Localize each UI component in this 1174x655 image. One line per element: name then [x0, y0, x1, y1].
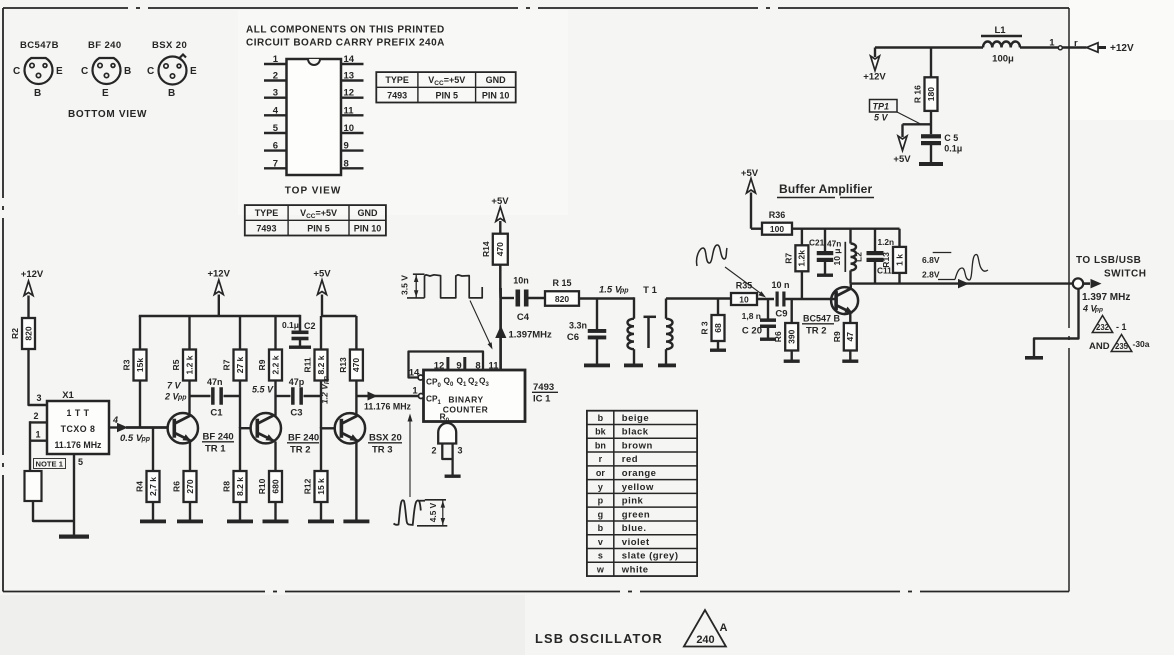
ground TR3 [343, 520, 369, 524]
svg-text:R35: R35 [736, 281, 753, 291]
wire R7 column to TR2 base [239, 380, 241, 428]
svg-text:R6: R6 [172, 481, 182, 492]
arrow from waveform to line [409, 420, 411, 497]
inductor L2 10u [849, 229, 851, 244]
svg-text:L1: L1 [994, 25, 1006, 36]
svg-text:68: 68 [713, 323, 723, 333]
resistor R7 27 k [234, 350, 247, 381]
svg-text:L2: L2 [854, 252, 864, 262]
svg-text:R36: R36 [769, 210, 786, 220]
svg-text:PIN 10: PIN 10 [482, 90, 510, 100]
leader line waveform to wire [470, 301, 492, 348]
resistor R2 820 [22, 318, 35, 349]
ground R0 [445, 475, 461, 478]
svg-text:SWITCH: SWITCH [1104, 269, 1146, 280]
svg-text:E: E [102, 88, 109, 99]
svg-text:PIN 10: PIN 10 [354, 223, 382, 233]
svg-text:R4: R4 [135, 481, 145, 492]
svg-text:1: 1 [1049, 38, 1055, 49]
wire TR1 base node [126, 426, 168, 428]
svg-text:1.2k: 1.2k [797, 250, 807, 267]
svg-text:C21: C21 [809, 238, 825, 248]
wire pins 2-1 to NOTE1 part [29, 421, 31, 471]
resistor R13 470 [350, 350, 363, 381]
svg-text:C: C [13, 66, 20, 77]
svg-text:TP1: TP1 [873, 102, 890, 112]
wire R6 to ground [189, 502, 191, 521]
svg-text:p: p [598, 496, 604, 506]
svg-text:PIN 5: PIN 5 [435, 90, 458, 100]
svg-text:BC547 B: BC547 B [803, 314, 841, 324]
wire L1 to rail [875, 46, 983, 49]
triangle ref 232 [1092, 316, 1112, 333]
resistor R9 47 [844, 323, 857, 351]
svg-text:11: 11 [488, 361, 499, 372]
resistor R35 10 [731, 293, 757, 305]
DIP pin 2 [264, 79, 287, 81]
transistor TR3 BSX20 [335, 413, 365, 443]
svg-text:slate (grey): slate (grey) [622, 551, 679, 562]
svg-text:R 16: R 16 [913, 85, 923, 103]
svg-text:pink: pink [622, 496, 644, 507]
svg-text:6: 6 [273, 141, 278, 152]
leader line sine to node [725, 267, 763, 295]
svg-text:GND: GND [357, 208, 378, 218]
svg-text:g: g [598, 509, 604, 519]
svg-text:11.176 MHz: 11.176 MHz [364, 402, 412, 412]
ground X1 [59, 535, 89, 539]
capacitor C21 47n [824, 229, 826, 252]
resistor R5 1.2 k [183, 350, 196, 381]
svg-text:47n: 47n [827, 239, 841, 249]
ground terminal [1025, 356, 1043, 360]
svg-text:R8: R8 [222, 481, 232, 492]
svg-text:COUNTER: COUNTER [443, 405, 489, 415]
svg-text:13: 13 [344, 71, 355, 82]
terminal to LSB/USB switch [1073, 278, 1083, 288]
svg-text:BF 240: BF 240 [88, 40, 122, 51]
svg-text:R6: R6 [773, 331, 783, 342]
svg-text:r: r [1074, 38, 1078, 49]
svg-text:9: 9 [456, 361, 461, 372]
svg-text:R3: R3 [122, 359, 132, 370]
svg-text:TYPE: TYPE [255, 208, 279, 218]
X1 pin 5 wire [73, 454, 75, 535]
svg-text:47p: 47p [289, 377, 305, 387]
wire rail to R13 [355, 316, 357, 350]
resistor R6 270 [184, 471, 197, 502]
svg-text:5: 5 [273, 123, 279, 134]
oscillator X1 TCXO [47, 401, 109, 454]
svg-text:TR 2: TR 2 [290, 445, 311, 456]
svg-text:R12: R12 [303, 478, 313, 494]
DIP pin 4 [264, 114, 287, 116]
arrow +12V input [1087, 43, 1099, 52]
svg-text:3: 3 [458, 446, 463, 456]
svg-text:7493: 7493 [256, 223, 276, 233]
resistor R13 1k (buffer) [898, 229, 900, 247]
resistor R10 680 [269, 471, 282, 502]
svg-text:or: or [596, 468, 605, 478]
svg-text:BSX 20: BSX 20 [152, 40, 187, 51]
resistor R3 15k [134, 350, 147, 381]
wire R8 from base node [239, 427, 241, 471]
svg-text:3: 3 [273, 88, 278, 99]
wire TR3 collector to counter CP1 [356, 395, 419, 398]
wire rail to R11 [320, 316, 322, 350]
transistor TR1 BF240 [168, 413, 198, 443]
svg-text:pp: pp [177, 395, 187, 402]
svg-text:680: 680 [270, 479, 280, 493]
svg-text:+12V: +12V [207, 269, 230, 280]
DIP pin 5 [264, 132, 287, 134]
wire T1 secondary to R35 [666, 297, 731, 299]
resistor R15 820 [545, 291, 579, 306]
svg-text:11.176 MHz: 11.176 MHz [55, 440, 103, 450]
colour code table [587, 411, 697, 576]
svg-text:10: 10 [344, 123, 355, 134]
svg-text:b: b [598, 413, 604, 423]
svg-text:AND: AND [1089, 341, 1110, 352]
svg-text:2: 2 [273, 71, 278, 82]
wire rail to R3 [139, 316, 141, 350]
wire NOTE1 to ground [33, 501, 74, 521]
svg-text:C 5: C 5 [944, 133, 958, 143]
wire TR2b emitter to R9 [849, 313, 851, 324]
IC1 pin 9 stub [463, 357, 466, 370]
capacitor C3 47p [276, 395, 291, 397]
svg-text:C4: C4 [517, 312, 530, 323]
svg-text:brown: brown [622, 440, 653, 451]
ground R3 [710, 349, 726, 352]
ground R6 [784, 360, 800, 363]
transistor TR2 BC547B buffer [831, 287, 858, 314]
svg-text:2.2 k: 2.2 k [270, 355, 280, 374]
svg-text:+5V: +5V [893, 154, 911, 165]
capacitor C9 10n [776, 292, 779, 307]
table 7493 supply pins (lower) [245, 205, 386, 235]
svg-text:R13: R13 [881, 252, 891, 268]
svg-text:1.397 MHz: 1.397 MHz [1082, 292, 1130, 303]
svg-text:100: 100 [770, 224, 784, 234]
svg-text:C9: C9 [775, 309, 787, 320]
svg-text:3.5 V: 3.5 V [400, 275, 410, 295]
svg-text:8: 8 [475, 361, 480, 372]
wire junction to +5V arrow [903, 123, 932, 125]
X1 pin 2 [30, 421, 47, 423]
svg-text:T 1: T 1 [643, 285, 657, 296]
triangle ref 240 A [684, 610, 726, 647]
svg-text:1.397MHz: 1.397MHz [509, 330, 553, 341]
DIP pin 10 [341, 132, 364, 134]
svg-text:7493: 7493 [533, 382, 554, 393]
IC1 pin 1 bubble [419, 394, 424, 399]
svg-text:15 k: 15 k [316, 478, 326, 495]
power +5V feed (down arrow) [898, 136, 907, 151]
svg-text:R9: R9 [257, 359, 267, 370]
svg-text:10 n: 10 n [771, 280, 789, 290]
svg-text:R11: R11 [303, 357, 313, 372]
waveform 3.5V square [407, 297, 425, 299]
svg-text:R7: R7 [222, 359, 232, 370]
svg-text:LSB OSCILLATOR: LSB OSCILLATOR [535, 631, 663, 646]
wire rail to R7 [239, 316, 241, 350]
svg-text:1.2n: 1.2n [878, 237, 895, 247]
svg-text:beige: beige [622, 413, 649, 424]
svg-text:bn: bn [595, 440, 606, 450]
svg-text:8.2 k: 8.2 k [235, 477, 245, 496]
svg-text:R5: R5 [171, 359, 181, 370]
svg-text:BF 240: BF 240 [288, 433, 319, 444]
DIP pin 9 [341, 149, 364, 151]
wire TR1 collector [188, 380, 190, 416]
power +12V feed (down arrow) [874, 48, 876, 58]
svg-text:GND: GND [486, 75, 507, 85]
waveform 4.5V pulses [394, 500, 421, 525]
svg-text:C2: C2 [304, 321, 316, 331]
svg-text:R 15: R 15 [552, 278, 571, 288]
capacitor C4 10n [500, 297, 514, 299]
svg-text:TR 2: TR 2 [806, 326, 827, 337]
svg-text:red: red [622, 454, 638, 465]
svg-text:E: E [190, 66, 197, 77]
svg-text:Buffer Amplifier: Buffer Amplifier [779, 182, 873, 196]
wire +12V rail [139, 315, 300, 318]
ground R8 [227, 520, 253, 524]
svg-text:R2: R2 [10, 328, 20, 339]
svg-text:3.3n: 3.3n [569, 321, 587, 331]
svg-text:C3: C3 [290, 408, 302, 419]
svg-text:BOTTOM VIEW: BOTTOM VIEW [68, 109, 147, 120]
R0 AND gate [438, 423, 456, 443]
wire [27, 296, 29, 319]
svg-text:1 k: 1 k [894, 254, 904, 266]
svg-text:5: 5 [78, 457, 83, 467]
svg-text:R13: R13 [338, 357, 348, 373]
svg-text:s: s [598, 551, 603, 561]
wire terminal to ground [1034, 289, 1079, 357]
svg-text:E: E [56, 66, 63, 77]
resistor R8 8.2 k [234, 471, 247, 502]
svg-text:+12V: +12V [21, 269, 44, 280]
svg-text:A: A [720, 622, 728, 634]
svg-text:NOTE 1: NOTE 1 [36, 460, 64, 469]
svg-text:green: green [622, 509, 650, 520]
capacitor C6 3.3n [596, 299, 598, 331]
DIP pin 8 [341, 167, 364, 169]
svg-text:27 k: 27 k [235, 356, 245, 373]
IC1 7493 binary counter [424, 370, 526, 422]
svg-text:2: 2 [431, 446, 436, 456]
svg-text:9: 9 [344, 141, 349, 152]
IC1 pin 11 wire [499, 288, 502, 370]
resistor R7 1.2k (buffer) [801, 229, 803, 246]
svg-text:pp: pp [141, 436, 151, 443]
wire R8 to ground [239, 502, 241, 521]
svg-text:180: 180 [926, 87, 936, 101]
svg-text:47n: 47n [207, 377, 223, 387]
component NOTE1 [25, 471, 42, 501]
svg-text:4.5 V: 4.5 V [428, 502, 438, 522]
ground R12 [308, 520, 334, 524]
svg-text:BINARY: BINARY [448, 395, 483, 405]
svg-text:12: 12 [434, 361, 445, 372]
svg-text:10 μ: 10 μ [832, 248, 842, 265]
svg-text:240: 240 [696, 634, 714, 646]
svg-text:R7: R7 [783, 253, 793, 264]
ground R9 [842, 360, 858, 363]
wire TR1 emitter [189, 442, 191, 472]
svg-text:TO LSB/USB: TO LSB/USB [1076, 255, 1141, 266]
svg-text:pp: pp [619, 288, 629, 295]
wire L1 to edge [1020, 46, 1058, 49]
capacitor C5 0.1u [921, 134, 941, 138]
svg-text:+12V: +12V [863, 72, 886, 83]
svg-text:X1: X1 [62, 390, 74, 401]
wire R3 to TR1 base [139, 380, 141, 428]
svg-text:blue.: blue. [622, 523, 647, 534]
svg-text:B: B [34, 88, 41, 99]
svg-text:-30a: -30a [1133, 339, 1150, 349]
wire output bus [851, 282, 1073, 284]
svg-text:violet: violet [622, 537, 650, 548]
resistor R9 2.2 k [269, 350, 282, 381]
svg-text:0.1μ: 0.1μ [944, 144, 962, 154]
svg-text:6.8V: 6.8V [922, 255, 940, 265]
DIP pin 11 [341, 114, 364, 116]
svg-text:2: 2 [33, 411, 38, 421]
svg-text:bk: bk [595, 427, 606, 437]
wire buffer rail [792, 227, 900, 229]
svg-text:v: v [598, 537, 603, 547]
resistor R16 180 [925, 77, 938, 111]
IC1 pin 12 stub [446, 357, 449, 370]
DIP pin 7 [264, 167, 287, 169]
svg-text:1.2 k: 1.2 k [184, 355, 194, 374]
svg-text:B: B [168, 88, 175, 99]
svg-text:white: white [621, 564, 649, 575]
wire rail to R5 [188, 316, 190, 350]
svg-text:1,8 n: 1,8 n [742, 311, 761, 321]
triangle ref 235 [1111, 335, 1132, 352]
DIP pin 12 [341, 96, 364, 98]
svg-text:470: 470 [351, 358, 361, 372]
svg-text:w: w [596, 564, 605, 574]
wire R4 from base [152, 428, 154, 472]
svg-text:2.8V: 2.8V [922, 270, 940, 280]
R0 pins 2 and 3 [442, 444, 452, 460]
testpoint TP1 [870, 100, 898, 113]
svg-text:BF 240: BF 240 [203, 432, 234, 443]
svg-text:470: 470 [495, 242, 505, 256]
svg-text:1: 1 [273, 54, 279, 65]
resistor R36 100 [751, 227, 762, 229]
svg-text:270: 270 [185, 479, 195, 493]
svg-text:TOP VIEW: TOP VIEW [285, 186, 342, 197]
svg-text:7 V: 7 V [167, 381, 182, 391]
svg-text:C: C [81, 66, 88, 77]
svg-text:12: 12 [344, 88, 355, 99]
wire R15 to T1 [579, 297, 634, 299]
DIP pin 1 [264, 63, 287, 65]
wire to R16 [930, 48, 932, 78]
svg-text:yellow: yellow [622, 482, 654, 493]
sine wave symbol [697, 245, 727, 266]
svg-text:100μ: 100μ [992, 54, 1014, 65]
svg-text:BC547B: BC547B [20, 40, 59, 51]
ground R10 [263, 520, 289, 524]
svg-text:820: 820 [23, 326, 33, 340]
ground C5 [919, 162, 943, 166]
wire +5V rail [322, 315, 356, 318]
svg-text:R10: R10 [257, 478, 267, 494]
svg-text:BSX 20: BSX 20 [369, 433, 402, 444]
svg-text:B: B [124, 66, 131, 77]
svg-text:1: 1 [35, 430, 40, 440]
svg-text:0.1μ: 0.1μ [282, 320, 299, 330]
resistor R3 68 [717, 299, 719, 316]
resistor R6 390 [791, 299, 793, 323]
ground R4 [140, 520, 166, 524]
svg-text:5.5 V: 5.5 V [252, 385, 274, 395]
svg-text:11: 11 [344, 105, 355, 116]
svg-text:C1: C1 [210, 408, 223, 419]
table 7493 supply pins (upper) [376, 72, 515, 102]
svg-text:y: y [598, 482, 603, 492]
resistor R4 2,7 k [147, 471, 160, 502]
svg-text:7493: 7493 [387, 90, 407, 100]
svg-text:1: 1 [412, 386, 418, 397]
wire TR3 collector [355, 380, 357, 417]
wire TR2 emitter [274, 442, 276, 472]
resistor R12 15 k [315, 471, 328, 502]
svg-text:1 T T: 1 T T [66, 408, 89, 418]
wire rail to R9 [274, 316, 276, 350]
wire R14 to junction [499, 265, 502, 288]
svg-text:C6: C6 [567, 332, 579, 343]
svg-text:R14: R14 [481, 241, 491, 257]
svg-text:8.2 k: 8.2 k [316, 355, 326, 374]
svg-text:pp: pp [1094, 307, 1103, 314]
DIP pin 6 [264, 149, 287, 151]
svg-text:390: 390 [787, 329, 797, 343]
X1 pin 4 output arrow [109, 426, 118, 428]
svg-text:232: 232 [1096, 323, 1110, 332]
svg-text:R 3: R 3 [700, 321, 710, 335]
svg-text:+12V: +12V [1110, 43, 1134, 54]
svg-text:0.5 V: 0.5 V [120, 433, 143, 444]
svg-text:b: b [598, 523, 604, 533]
svg-text:CIRCUIT BOARD CARRY PREFIX 240: CIRCUIT BOARD CARRY PREFIX 240A [246, 38, 445, 49]
svg-text:- 1: - 1 [1116, 322, 1127, 332]
svg-text:14: 14 [344, 54, 355, 65]
svg-text:TR 3: TR 3 [372, 445, 393, 456]
wire R11 column to TR3 base [320, 380, 322, 428]
svg-text:820: 820 [555, 294, 569, 304]
wire R16 to C5 [930, 111, 932, 134]
svg-text:15k: 15k [135, 358, 145, 372]
wire TR2b collector [850, 284, 852, 289]
svg-text:black: black [622, 427, 649, 438]
DIP pin 14 [341, 63, 364, 65]
svg-text:ALL COMPONENTS ON THIS PRINTED: ALL COMPONENTS ON THIS PRINTED [246, 25, 445, 36]
node 1.397MHz marker [495, 326, 506, 339]
DIP pin 3 [264, 96, 287, 98]
dimension 4.5V [425, 499, 446, 501]
svg-text:+5V: +5V [741, 168, 759, 179]
svg-text:8: 8 [344, 158, 349, 169]
svg-text:1.5 V: 1.5 V [599, 285, 622, 296]
